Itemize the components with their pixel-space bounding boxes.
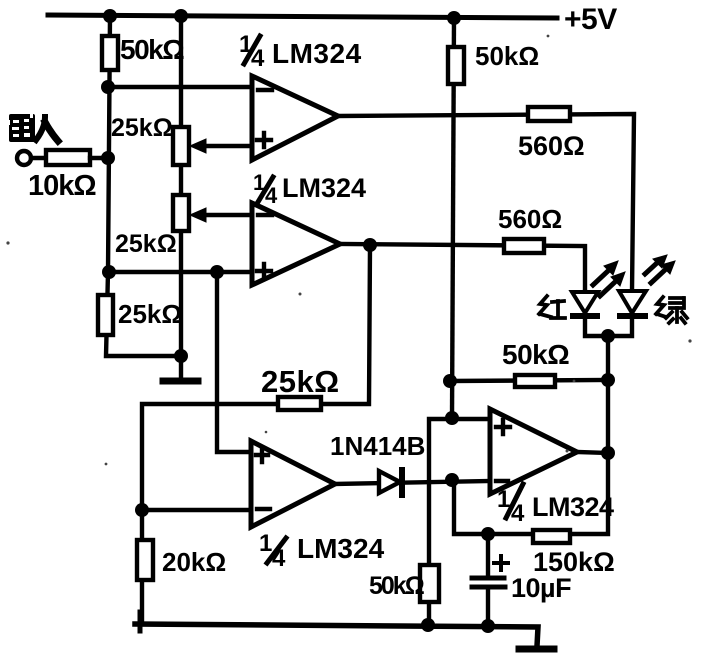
resistor R1 50k body [102, 36, 118, 70]
ground G2 bar [519, 646, 554, 653]
svg-text:50kΩ: 50kΩ [475, 41, 539, 71]
resistor R5 560 body [528, 107, 570, 121]
node U4 minus [445, 473, 459, 487]
arrow head P2 wiper [190, 208, 206, 222]
svg-text:25kΩ: 25kΩ [118, 299, 182, 329]
op-amp U2 1/4 LM324 [252, 203, 340, 285]
svg-text:25kΩ: 25kΩ [261, 364, 340, 399]
svg-text:LM324: LM324 [282, 173, 366, 203]
label C1 10µF [511, 573, 571, 603]
paper specks [6, 35, 691, 466]
wire from input node branch down to U3 plus input [217, 272, 251, 452]
resistor R2 10k body [46, 150, 90, 165]
label R9 20kΩ [162, 547, 226, 577]
svg-text:1N414B: 1N414B [330, 431, 425, 461]
ground G1 bar [163, 378, 198, 385]
label R7 50kΩ [502, 339, 569, 370]
wire LED common node down right side, left through R11, up to U4 minus node [454, 336, 608, 534]
resistor R10 50k body [420, 565, 439, 602]
svg-text:50kΩ: 50kΩ [120, 34, 184, 65]
U1 minus mark [258, 88, 272, 92]
wire U2 output to corner then down to red LED [340, 244, 585, 292]
label R6 560Ω [498, 204, 562, 234]
svg-text:10kΩ: 10kΩ [28, 170, 96, 202]
LED green triangle [619, 291, 646, 313]
wire main vertical reference line from rail through R4 down to U4 plus node [452, 18, 454, 418]
wire P2 wiper arrow to U2 inverting input [198, 213, 252, 217]
resistor R11 150k body [533, 530, 570, 543]
wire node to U3 minus input [142, 508, 251, 512]
LED green light arrow 1 [645, 255, 667, 274]
bottom wire left end hook [138, 612, 143, 631]
svg-text:20kΩ: 20kΩ [162, 547, 226, 577]
node input [101, 151, 115, 165]
svg-text:+5V: +5V [564, 3, 617, 36]
label 输入 (input) [8, 114, 35, 142]
potentiometer P2 25k body [173, 195, 189, 231]
wire U1 output to right corner then down to green LED [338, 114, 634, 291]
LED red cathode bar [573, 313, 597, 319]
ground G1 stub [179, 356, 183, 378]
wire left vertical from rail through R1 down to input node [108, 16, 110, 272]
node 50k-feedback-right [601, 373, 615, 387]
label R3 25kΩ [118, 299, 182, 329]
label +5V [564, 3, 617, 36]
node LED common [601, 329, 615, 343]
U3 plus mark [256, 448, 268, 462]
op-amp U1 1/4 LM324 [252, 76, 338, 160]
node bottom-50k [421, 618, 435, 632]
junction node dots [101, 9, 615, 633]
label R10 50kΩ [369, 572, 425, 600]
svg-text:560Ω: 560Ω [518, 131, 585, 161]
node U4 plus [445, 411, 459, 425]
LED green light arrow 2 [651, 261, 675, 283]
svg-text:560Ω: 560Ω [498, 204, 562, 234]
resistor R8 25k body [278, 397, 321, 410]
wire node A to op-amp U1 inverting input [108, 85, 252, 89]
label R5 560Ω [518, 131, 585, 161]
resistor R4 50k body [448, 47, 464, 84]
label U3 1/4 LM324 [259, 530, 385, 572]
wire input node to U2 non-inverting input [108, 270, 252, 274]
node U3 minus [135, 503, 149, 517]
resistor R3 25k body [98, 295, 113, 335]
capacitor C1 plus polarity mark [494, 556, 508, 570]
diode D1 body [379, 471, 400, 493]
input terminal circle [17, 151, 31, 165]
wire divider chain vertical x=181 from rail to ground [179, 16, 183, 356]
svg-text:50kΩ: 50kΩ [369, 572, 425, 600]
resistor R7 50k body [515, 375, 555, 387]
U1 plus mark [257, 133, 271, 147]
label R4 50kΩ [475, 41, 539, 71]
resistor R9 20k body [137, 540, 153, 580]
label R1 50kΩ [120, 34, 184, 65]
node ground-divider [174, 349, 188, 363]
wire U4 plus input with 50k pulldown branch [429, 419, 490, 625]
node U2 output [363, 238, 377, 252]
U4 plus mark [496, 420, 510, 434]
node bottom-cap [481, 619, 495, 633]
LED red light arrow 1 [593, 261, 618, 285]
label R11 150kΩ [533, 547, 615, 577]
capacitor C1 bottom plate [472, 585, 505, 590]
capacitor C1 top plate [472, 576, 504, 581]
label R8 25kΩ [261, 364, 340, 399]
svg-text:1: 1 [259, 530, 272, 557]
svg-text:25kΩ: 25kΩ [115, 230, 177, 258]
wire input node down through R3 to ground wire [106, 272, 181, 356]
node rail-left [103, 9, 117, 23]
wire U4 output stub to right vertical [577, 452, 608, 453]
diode D1 cathode bar [399, 470, 405, 495]
label R2 10kΩ [28, 170, 96, 202]
node 50k-feedback-left [443, 374, 457, 388]
resistor R6 560 body [504, 239, 544, 253]
LED red triangle [572, 292, 598, 313]
label D1 1N414B [330, 431, 425, 461]
svg-text:10µF: 10µF [511, 573, 571, 603]
svg-text:LM324: LM324 [532, 492, 614, 522]
svg-text:LM324: LM324 [297, 533, 385, 564]
wire capacitor branch from feedback node down to bottom wire [486, 534, 490, 625]
label U4 1/4 LM324 [497, 486, 614, 527]
LED red light arrow 2 [600, 272, 625, 296]
wire U3 output to diode D1 to U4 minus input [335, 481, 490, 484]
label P2 25kΩ [115, 230, 177, 258]
LED green cathode bar [620, 313, 645, 319]
arrow head P1 wiper [190, 139, 206, 153]
wire input terminal to R2 [31, 156, 46, 160]
wire +5V power rail [48, 15, 557, 18]
node A top-left [101, 80, 115, 94]
node U4 output [601, 446, 615, 460]
U2 minus mark [258, 213, 272, 217]
svg-text:LM324: LM324 [272, 38, 362, 69]
LED green anode/cathode wires [608, 316, 632, 336]
wire P1 wiper arrow to U1 non-inverting input [198, 144, 252, 148]
U2 plus mark [257, 264, 271, 278]
svg-text:50kΩ: 50kΩ [502, 339, 569, 370]
wire 50k feedback horizontal [450, 380, 608, 381]
wire bottom ground rail [135, 624, 538, 646]
label green 绿 [656, 297, 687, 323]
node feedback-cap [481, 527, 495, 541]
op-amp U3 1/4 LM324 [251, 441, 335, 527]
U4 minus mark [496, 479, 508, 483]
op-amp U4 1/4 LM324 [490, 409, 577, 494]
wire 25k feedback: from U2 output node down, left through R8, down left side through R9 to bottom wire [142, 245, 370, 621]
LED red anode/cathode wires [585, 292, 608, 336]
label P1 25kΩ [111, 114, 173, 142]
node U2plus-branch [210, 265, 224, 279]
wire R2 to input node [90, 156, 108, 160]
svg-text:25kΩ: 25kΩ [111, 114, 173, 142]
node rail-reference [447, 11, 461, 25]
node rail-divider [174, 9, 188, 23]
U3 minus mark [257, 507, 270, 511]
node input-lower [102, 265, 116, 279]
label red 红 [539, 296, 565, 318]
label U2 1/4 LM324 [253, 170, 366, 208]
label U1 1/4 LM324 [239, 31, 362, 72]
potentiometer P1 25k body [173, 127, 189, 165]
